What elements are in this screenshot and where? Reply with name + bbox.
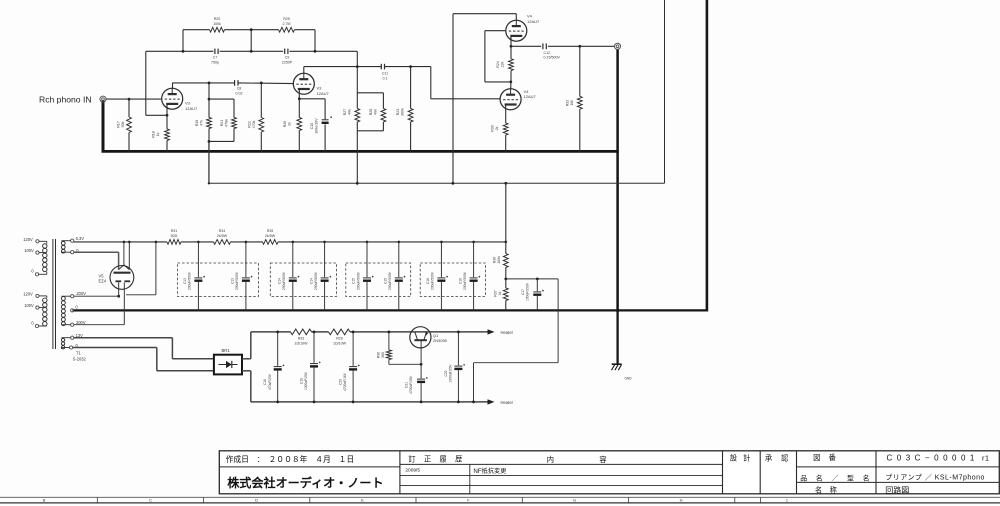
svg-text:R18: R18 [152, 131, 156, 138]
svg-text:470k: 470k [252, 120, 256, 128]
svg-text:C17: C17 [521, 289, 525, 295]
svg-text:NF抵抗変更: NF抵抗変更 [473, 467, 506, 475]
svg-text:R26: R26 [283, 121, 287, 128]
svg-text:R23: R23 [396, 109, 400, 116]
svg-text:訂 正 履 歴: 訂 正 履 歴 [408, 454, 465, 463]
svg-text:E: E [361, 498, 364, 503]
svg-text:300k: 300k [401, 108, 405, 116]
svg-text:2k/5W: 2k/5W [217, 234, 228, 238]
svg-text:200uF/500V: 200uF/500V [188, 271, 192, 290]
svg-text:C15: C15 [384, 278, 388, 284]
svg-text:C14: C14 [309, 278, 313, 284]
svg-text:Heater: Heater [501, 330, 514, 335]
svg-text:R30: R30 [377, 352, 381, 359]
svg-text:R36: R36 [493, 257, 497, 264]
svg-text:V3: V3 [185, 101, 191, 106]
svg-text:0.1: 0.1 [383, 77, 388, 81]
svg-text:200uF/500V: 200uF/500V [314, 271, 318, 290]
svg-text:200uF/500V: 200uF/500V [356, 271, 360, 290]
svg-text:C13: C13 [183, 278, 187, 284]
svg-text:2k: 2k [288, 122, 292, 126]
svg-text:100k: 100k [213, 22, 221, 26]
svg-text:作成日 ： ２００８年 ４月 １日: 作成日 ： ２００８年 ４月 １日 [226, 454, 355, 464]
svg-text:C: C [149, 498, 152, 503]
svg-text:R31: R31 [171, 229, 178, 233]
svg-text:2N3055: 2N3055 [433, 338, 448, 343]
svg-text:200uF/500V: 200uF/500V [235, 271, 239, 290]
svg-text:V3: V3 [317, 86, 323, 91]
svg-text:100uF/350V: 100uF/350V [526, 282, 530, 301]
svg-text:R27: R27 [343, 109, 347, 116]
svg-text:120V: 120V [23, 291, 33, 296]
svg-text:360: 360 [381, 352, 385, 358]
svg-text:40k: 40k [374, 109, 378, 115]
svg-text:2k: 2k [495, 126, 499, 130]
svg-text:C13: C13 [231, 278, 235, 284]
svg-text:R24: R24 [496, 61, 500, 68]
svg-text:50k: 50k [121, 121, 125, 127]
svg-text:R34: R34 [219, 229, 226, 233]
svg-text:100u/16V: 100u/16V [315, 118, 319, 134]
svg-text:2k/5W: 2k/5W [265, 234, 276, 238]
svg-text:4k: 4k [498, 291, 502, 295]
svg-text:R37: R37 [494, 290, 498, 297]
svg-text:1Ω/10W: 1Ω/10W [294, 342, 308, 346]
svg-text:C12: C12 [544, 51, 551, 55]
svg-text:0.15/500V: 0.15/500V [544, 56, 561, 60]
svg-text:4700uF/16V: 4700uF/16V [343, 372, 347, 391]
svg-text:R21: R21 [220, 120, 224, 127]
svg-text:V4: V4 [527, 14, 533, 19]
svg-text:T1: T1 [76, 351, 82, 356]
svg-text:内: 内 [547, 455, 554, 464]
svg-text:R17: R17 [117, 121, 121, 128]
svg-text:GND: GND [625, 376, 633, 380]
svg-text:R29: R29 [336, 337, 343, 341]
svg-text:40k: 40k [348, 109, 352, 115]
svg-text:名 称: 名 称 [815, 486, 839, 495]
svg-text:C10: C10 [310, 123, 314, 130]
svg-text:12AU7: 12AU7 [527, 19, 540, 24]
svg-text:R28: R28 [369, 109, 373, 116]
svg-text:R33: R33 [298, 337, 305, 341]
svg-text:R35: R35 [267, 229, 274, 233]
svg-text:12AU7: 12AU7 [524, 94, 537, 99]
svg-text:200uF/500V: 200uF/500V [463, 271, 467, 290]
svg-text:C03C−00001: C03C−00001 [887, 453, 979, 462]
svg-text:1Ω/10W: 1Ω/10W [333, 342, 347, 346]
svg-text:0.02: 0.02 [236, 92, 243, 96]
svg-text:D: D [255, 498, 258, 503]
svg-text:6.3V: 6.3V [76, 236, 85, 241]
svg-text:C7: C7 [213, 56, 218, 60]
svg-text:1000uF/25V: 1000uF/25V [304, 371, 308, 390]
svg-text:C11: C11 [382, 72, 388, 76]
svg-text:200uF/500V: 200uF/500V [431, 271, 435, 290]
svg-text:C22: C22 [444, 370, 448, 376]
svg-text:図 番: 図 番 [813, 453, 839, 462]
svg-text:1k: 1k [156, 132, 160, 136]
svg-text:C15: C15 [352, 278, 356, 284]
svg-text:BR1: BR1 [222, 348, 231, 353]
svg-text:R32: R32 [566, 100, 570, 107]
svg-text:V5: V5 [99, 273, 105, 278]
svg-text:C8: C8 [237, 87, 242, 91]
svg-text:C18: C18 [263, 379, 267, 385]
svg-text:200uF/500V: 200uF/500V [388, 271, 392, 290]
svg-text:設 計: 設 計 [730, 454, 752, 463]
svg-text:Rch phono IN: Rch phono IN [39, 94, 92, 104]
svg-text:120V: 120V [23, 237, 33, 242]
svg-text:200V: 200V [76, 291, 86, 296]
svg-text:1M: 1M [570, 101, 574, 106]
svg-text:B: B [43, 498, 46, 503]
svg-text:C16: C16 [458, 278, 462, 284]
svg-text:r1: r1 [982, 453, 989, 462]
svg-text:R19: R19 [195, 120, 199, 127]
svg-text:回路図: 回路図 [885, 485, 909, 495]
svg-text:承 認: 承 認 [765, 454, 792, 463]
svg-text:470k: 470k [225, 119, 229, 127]
svg-text:プリアンプ ／ KSL-M7phono: プリアンプ ／ KSL-M7phono [885, 474, 985, 482]
svg-text:50Ω: 50Ω [171, 234, 178, 238]
svg-text:100k: 100k [497, 256, 501, 264]
svg-text:C21: C21 [405, 382, 409, 388]
svg-text:R25: R25 [283, 17, 290, 21]
svg-text:100V: 100V [24, 303, 34, 308]
svg-text:12AU7: 12AU7 [317, 91, 330, 96]
svg-text:C16: C16 [426, 278, 430, 284]
svg-text:S-2032: S-2032 [73, 357, 87, 362]
svg-text:47k: 47k [200, 120, 204, 126]
svg-text:470uF/25V: 470uF/25V [268, 373, 272, 390]
svg-text:EZ4: EZ4 [99, 279, 107, 284]
svg-text:株式会社オーディオ・ノート: 株式会社オーディオ・ノート [227, 475, 383, 490]
svg-text:2250P: 2250P [282, 61, 293, 65]
svg-text:C19: C19 [300, 378, 304, 384]
svg-text:R22: R22 [248, 121, 252, 128]
svg-text:2009/5: 2009/5 [405, 468, 420, 474]
svg-text:200uF/500V: 200uF/500V [282, 271, 286, 290]
svg-text:品 名 ／ 型 名: 品 名 ／ 型 名 [800, 473, 873, 482]
svg-text:C20: C20 [339, 379, 343, 385]
svg-text:H: H [680, 498, 683, 503]
svg-text:100V: 100V [24, 248, 34, 253]
svg-text:22k: 22k [501, 61, 505, 67]
svg-text:C9: C9 [285, 56, 290, 60]
svg-text:1: 1 [786, 498, 788, 503]
svg-text:2.7M: 2.7M [283, 22, 291, 26]
svg-text:12AU7: 12AU7 [185, 106, 198, 111]
svg-text:1000uF/25V: 1000uF/25V [449, 364, 453, 383]
svg-text:R20: R20 [214, 17, 221, 21]
svg-text:C14: C14 [278, 278, 282, 284]
svg-text:R30: R30 [491, 125, 495, 132]
svg-text:Heater: Heater [501, 400, 514, 405]
svg-text:G: G [573, 498, 576, 503]
svg-text:Q1: Q1 [433, 333, 439, 338]
svg-text:4700uF/35V: 4700uF/35V [409, 375, 413, 394]
svg-text:750p: 750p [211, 61, 219, 65]
svg-text:容: 容 [599, 455, 607, 464]
